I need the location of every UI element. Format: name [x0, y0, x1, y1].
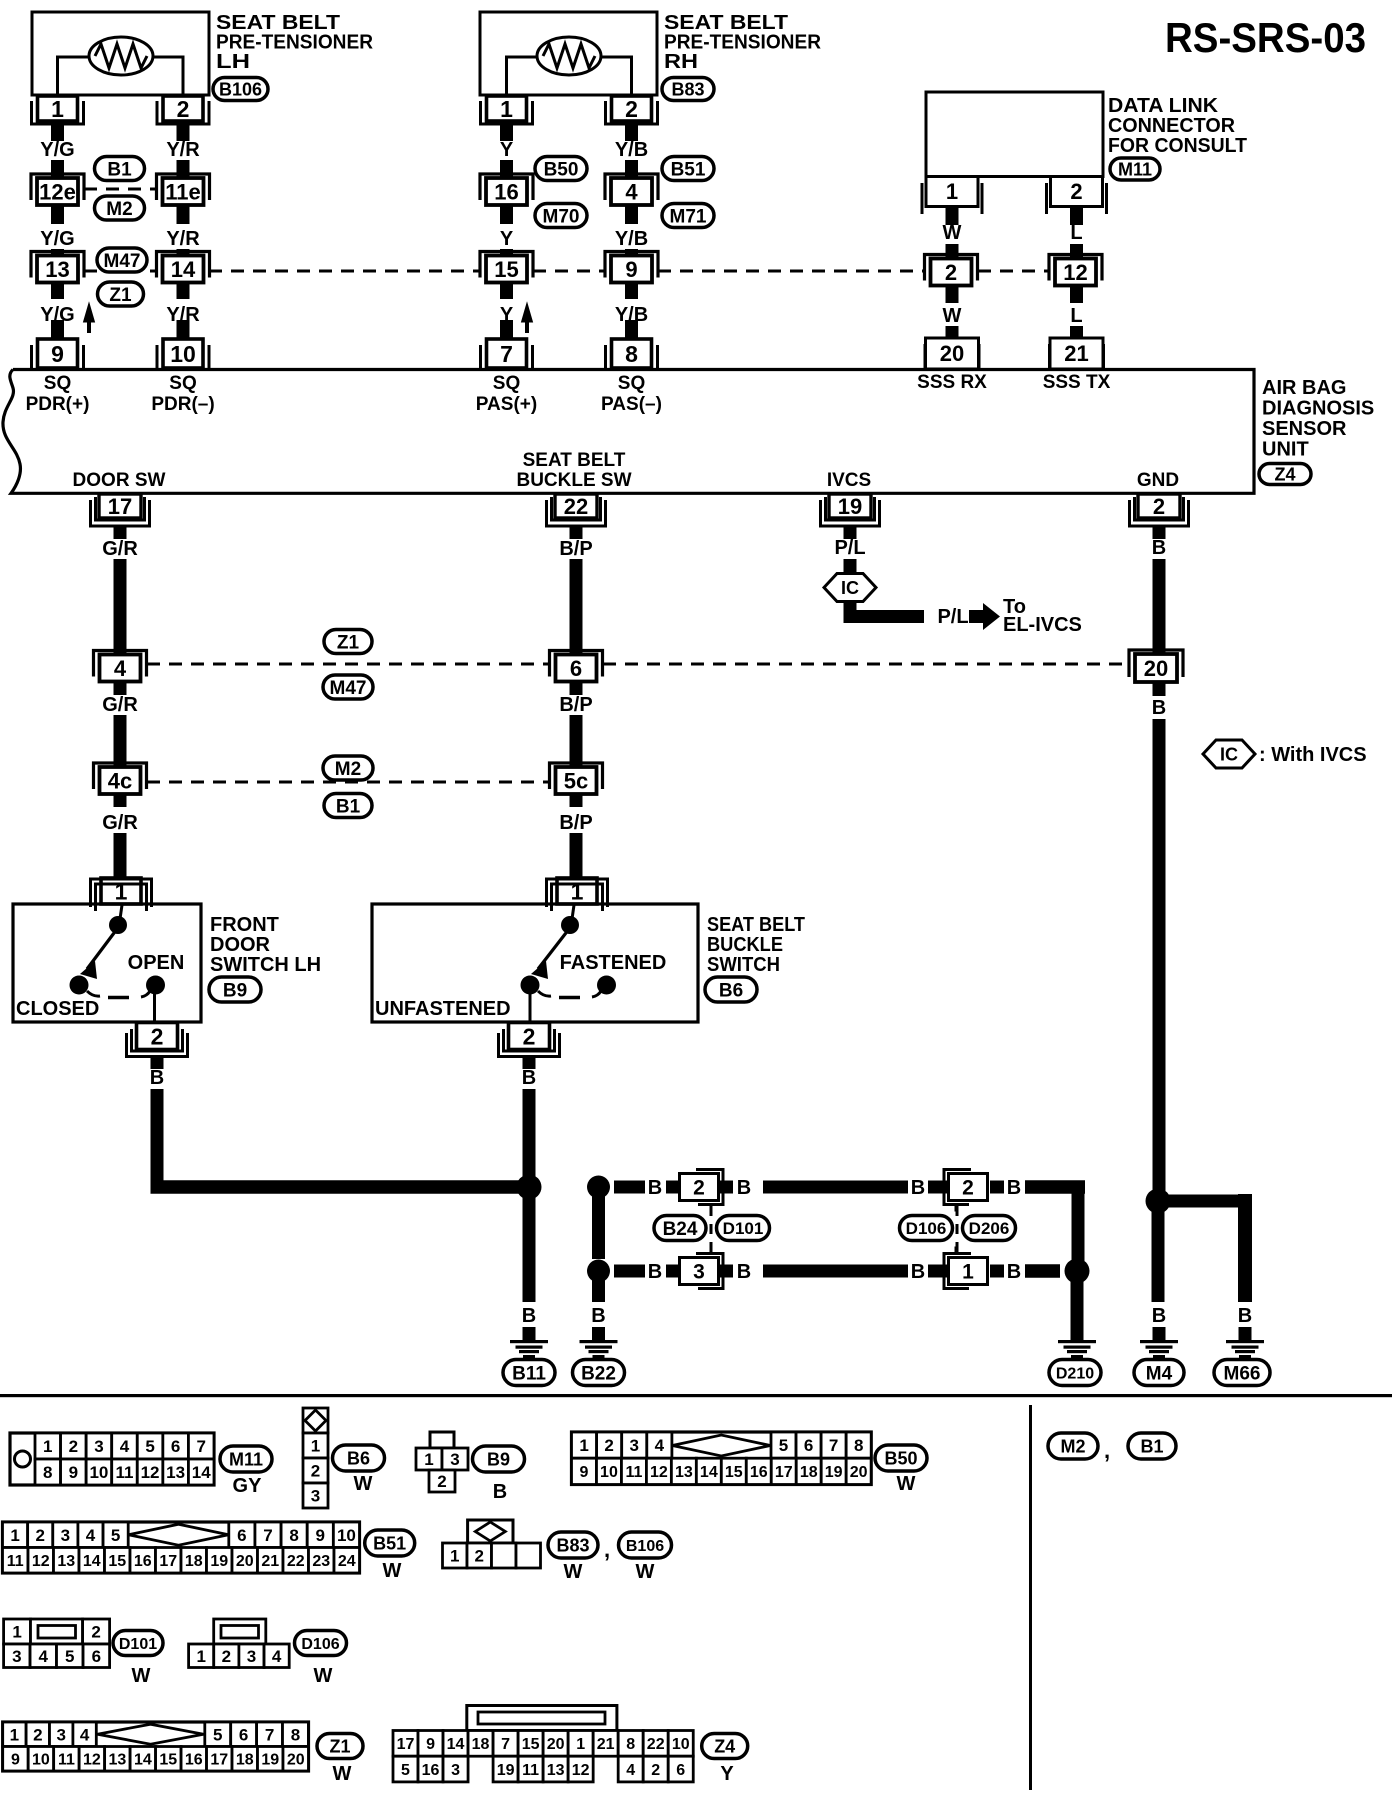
svg-text:B106: B106 — [219, 79, 262, 99]
svg-text:SQ: SQ — [169, 373, 196, 394]
svg-text:9: 9 — [11, 1752, 20, 1769]
svg-text:6: 6 — [804, 1436, 813, 1455]
svg-text:1: 1 — [576, 1736, 585, 1753]
svg-text:9: 9 — [69, 1463, 78, 1482]
svg-text:14: 14 — [134, 1752, 152, 1769]
svg-text:B83: B83 — [671, 79, 704, 99]
svg-text:M2: M2 — [1060, 1436, 1085, 1456]
svg-text:W: W — [333, 1763, 352, 1785]
svg-text:2: 2 — [222, 1647, 231, 1666]
svg-text:: With IVCS: : With IVCS — [1259, 744, 1367, 766]
svg-text:SQ: SQ — [44, 373, 71, 394]
svg-text:B: B — [150, 1067, 164, 1089]
svg-text:SQ: SQ — [618, 373, 645, 394]
svg-text:2: 2 — [311, 1462, 320, 1481]
svg-text:8: 8 — [291, 1725, 300, 1744]
svg-text:19: 19 — [825, 1464, 843, 1481]
svg-text:B51: B51 — [373, 1533, 406, 1553]
svg-text:1: 1 — [946, 179, 958, 204]
svg-text:W: W — [943, 222, 962, 244]
svg-text:1: 1 — [571, 878, 584, 904]
svg-text:18: 18 — [185, 1553, 203, 1570]
svg-text:B1: B1 — [107, 159, 132, 180]
svg-text:M4: M4 — [1146, 1363, 1173, 1384]
svg-text:DOOR SW: DOOR SW — [73, 470, 166, 491]
svg-text:B/P: B/P — [559, 694, 592, 716]
svg-text:5: 5 — [401, 1762, 410, 1779]
svg-text:14: 14 — [700, 1464, 718, 1481]
svg-text:Y/G: Y/G — [40, 139, 74, 161]
svg-text:1: 1 — [579, 1436, 588, 1455]
svg-text:4c: 4c — [108, 768, 132, 793]
svg-text:W: W — [314, 1665, 333, 1687]
svg-text:IVCS: IVCS — [827, 470, 871, 491]
svg-text:9: 9 — [426, 1736, 435, 1753]
svg-text:G/R: G/R — [102, 694, 138, 716]
svg-text:3: 3 — [56, 1725, 65, 1744]
svg-text:3: 3 — [630, 1436, 639, 1455]
svg-text:7: 7 — [501, 1736, 510, 1753]
svg-text:2: 2 — [151, 1023, 164, 1049]
svg-text:9: 9 — [316, 1526, 325, 1545]
svg-text:2: 2 — [91, 1623, 100, 1642]
svg-text:18: 18 — [472, 1736, 490, 1753]
svg-text:B: B — [737, 1177, 751, 1199]
svg-text:15: 15 — [725, 1464, 743, 1481]
svg-text:1: 1 — [115, 878, 128, 904]
svg-text:4: 4 — [626, 1762, 635, 1779]
svg-text:23: 23 — [312, 1553, 330, 1570]
svg-text:L: L — [1070, 222, 1082, 244]
svg-text:,: , — [1104, 1438, 1110, 1463]
svg-text:11e: 11e — [165, 179, 201, 204]
svg-text:B106: B106 — [626, 1538, 664, 1555]
svg-text:IC: IC — [1220, 745, 1238, 765]
svg-text:17: 17 — [397, 1736, 415, 1753]
svg-text:9: 9 — [580, 1464, 589, 1481]
svg-text:Y/R: Y/R — [166, 228, 200, 250]
svg-text:20: 20 — [236, 1553, 254, 1570]
svg-text:18: 18 — [800, 1464, 818, 1481]
svg-text:B11: B11 — [512, 1363, 546, 1384]
svg-text:2: 2 — [604, 1436, 613, 1455]
svg-text:SWITCH LH: SWITCH LH — [210, 954, 321, 976]
svg-text:11: 11 — [7, 1553, 24, 1570]
svg-text:8: 8 — [43, 1463, 52, 1482]
svg-text:11: 11 — [522, 1762, 539, 1779]
svg-text:10: 10 — [32, 1752, 50, 1769]
svg-text:1: 1 — [311, 1437, 320, 1456]
svg-text:W: W — [354, 1473, 373, 1495]
svg-text:14: 14 — [192, 1463, 211, 1482]
svg-text:SQ: SQ — [493, 373, 520, 394]
svg-text:3: 3 — [94, 1437, 103, 1456]
svg-text:LH: LH — [216, 51, 250, 73]
svg-text:W: W — [564, 1561, 583, 1583]
svg-text:7: 7 — [265, 1725, 274, 1744]
svg-text:15: 15 — [108, 1553, 126, 1570]
svg-text:D206: D206 — [969, 1219, 1010, 1238]
svg-text:16: 16 — [750, 1464, 768, 1481]
svg-text:P/L: P/L — [937, 606, 968, 628]
svg-text:2: 2 — [945, 260, 957, 285]
svg-text:M11: M11 — [1118, 159, 1152, 179]
svg-text:BUCKLE SW: BUCKLE SW — [516, 470, 631, 491]
svg-text:8: 8 — [625, 341, 638, 367]
svg-text:SEAT BELT: SEAT BELT — [523, 450, 626, 471]
svg-text:18: 18 — [236, 1752, 254, 1769]
svg-text:8: 8 — [626, 1736, 635, 1753]
svg-text:Y: Y — [720, 1763, 734, 1785]
svg-text:2: 2 — [69, 1437, 78, 1456]
svg-text:8: 8 — [289, 1526, 298, 1545]
svg-text:B: B — [1152, 697, 1166, 719]
svg-text:Y/R: Y/R — [166, 139, 200, 161]
svg-text:10: 10 — [170, 341, 196, 367]
svg-text:4: 4 — [272, 1647, 282, 1666]
svg-text:GND: GND — [1137, 470, 1179, 491]
svg-text:1: 1 — [10, 1725, 19, 1744]
svg-text:13: 13 — [57, 1553, 75, 1570]
svg-text:B/P: B/P — [559, 812, 592, 834]
svg-text:14: 14 — [447, 1736, 465, 1753]
svg-text:2: 2 — [625, 96, 638, 122]
svg-text:11: 11 — [58, 1752, 75, 1769]
svg-text:FASTENED: FASTENED — [560, 952, 667, 974]
svg-text:D101: D101 — [119, 1636, 157, 1653]
svg-text:6: 6 — [570, 656, 582, 681]
svg-text:2: 2 — [693, 1177, 705, 1200]
svg-text:6: 6 — [171, 1437, 180, 1456]
svg-text:M66: M66 — [1224, 1363, 1261, 1384]
svg-text:5c: 5c — [564, 768, 588, 793]
svg-text:2: 2 — [962, 1177, 974, 1200]
svg-text:CLOSED: CLOSED — [16, 998, 99, 1020]
svg-text:SEAT BELT: SEAT BELT — [707, 914, 805, 936]
svg-text:D106: D106 — [906, 1219, 947, 1238]
svg-text:B: B — [1152, 1305, 1166, 1327]
svg-text:M11: M11 — [229, 1449, 263, 1469]
svg-text:DIAGNOSIS: DIAGNOSIS — [1262, 398, 1374, 420]
svg-text:B50: B50 — [544, 159, 579, 180]
svg-text:5: 5 — [779, 1436, 788, 1455]
svg-text:1: 1 — [51, 96, 64, 122]
svg-text:D106: D106 — [301, 1636, 339, 1653]
svg-text:W: W — [943, 305, 962, 327]
svg-text:13: 13 — [547, 1762, 565, 1779]
svg-text:9: 9 — [51, 341, 64, 367]
svg-text:21: 21 — [597, 1736, 615, 1753]
svg-text:Z4: Z4 — [1274, 464, 1295, 484]
svg-text:B: B — [1238, 1305, 1252, 1327]
svg-text:3: 3 — [451, 1762, 460, 1779]
svg-text:11: 11 — [625, 1464, 642, 1481]
svg-text:FOR CONSULT: FOR CONSULT — [1108, 135, 1247, 157]
svg-text:14: 14 — [83, 1553, 101, 1570]
svg-text:EL-IVCS: EL-IVCS — [1003, 614, 1082, 636]
svg-text:19: 19 — [210, 1553, 228, 1570]
svg-text:19: 19 — [261, 1752, 279, 1769]
svg-text:12: 12 — [1063, 260, 1087, 285]
svg-text:4: 4 — [120, 1437, 130, 1456]
svg-text:B83: B83 — [556, 1535, 589, 1555]
svg-text:4: 4 — [625, 179, 638, 204]
svg-text:B24: B24 — [663, 1219, 698, 1240]
svg-text:12: 12 — [83, 1752, 101, 1769]
svg-text:6: 6 — [676, 1762, 685, 1779]
svg-text:7: 7 — [263, 1526, 272, 1545]
svg-text:4: 4 — [39, 1647, 49, 1666]
svg-text:2: 2 — [35, 1526, 44, 1545]
svg-text:17: 17 — [108, 494, 132, 519]
svg-text:22: 22 — [647, 1736, 665, 1753]
svg-text:SENSOR: SENSOR — [1262, 418, 1347, 440]
svg-text:5: 5 — [145, 1437, 154, 1456]
svg-text:B: B — [911, 1177, 925, 1199]
svg-text:5: 5 — [65, 1647, 74, 1666]
svg-text:UNFASTENED: UNFASTENED — [375, 998, 511, 1020]
svg-text:BUCKLE: BUCKLE — [707, 934, 783, 956]
svg-text:Y: Y — [500, 228, 514, 250]
svg-text:13: 13 — [166, 1463, 185, 1482]
svg-text:M2: M2 — [106, 199, 132, 220]
svg-text:B: B — [1007, 1261, 1021, 1283]
svg-text:2: 2 — [523, 1023, 536, 1049]
svg-text:3: 3 — [311, 1487, 320, 1506]
svg-text:20: 20 — [547, 1736, 565, 1753]
svg-text:8: 8 — [854, 1436, 863, 1455]
svg-text:15: 15 — [494, 257, 518, 282]
svg-text:12: 12 — [141, 1463, 160, 1482]
svg-text:2: 2 — [651, 1762, 660, 1779]
svg-text:M47: M47 — [104, 251, 141, 272]
svg-text:4: 4 — [80, 1725, 90, 1744]
svg-text:10: 10 — [600, 1464, 618, 1481]
svg-text:1: 1 — [450, 1547, 459, 1566]
svg-text:Y/B: Y/B — [615, 228, 648, 250]
svg-text:3: 3 — [247, 1647, 256, 1666]
svg-text:3: 3 — [12, 1647, 21, 1666]
svg-text:13: 13 — [45, 257, 69, 282]
svg-text:2: 2 — [33, 1725, 42, 1744]
svg-text:B: B — [591, 1305, 605, 1327]
svg-text:4: 4 — [86, 1526, 96, 1545]
svg-text:19: 19 — [838, 494, 862, 519]
svg-text:17: 17 — [159, 1553, 177, 1570]
svg-text:15: 15 — [522, 1736, 540, 1753]
svg-text:21: 21 — [1064, 341, 1088, 366]
svg-text:16: 16 — [185, 1752, 203, 1769]
svg-text:9: 9 — [625, 257, 637, 282]
svg-text:24: 24 — [338, 1553, 356, 1570]
svg-text:17: 17 — [775, 1464, 793, 1481]
svg-text:G/R: G/R — [102, 538, 138, 560]
svg-text:1: 1 — [500, 96, 513, 122]
svg-text:B9: B9 — [223, 980, 247, 1001]
svg-text:Y: Y — [500, 139, 514, 161]
svg-text:22: 22 — [287, 1553, 305, 1570]
svg-text:15: 15 — [159, 1752, 177, 1769]
svg-text:10: 10 — [337, 1526, 356, 1545]
svg-text:W: W — [897, 1473, 916, 1495]
svg-text:G/R: G/R — [102, 812, 138, 834]
svg-text:11: 11 — [116, 1463, 134, 1482]
svg-text:B: B — [648, 1261, 662, 1283]
svg-text:B: B — [1152, 537, 1166, 559]
svg-text:7: 7 — [829, 1436, 838, 1455]
svg-text:12: 12 — [572, 1762, 590, 1779]
svg-text:W: W — [636, 1561, 655, 1583]
svg-text:B50: B50 — [884, 1448, 917, 1468]
svg-text:UNIT: UNIT — [1262, 439, 1309, 461]
svg-text:2: 2 — [1153, 494, 1165, 519]
svg-text:Y/G: Y/G — [40, 228, 74, 250]
svg-text:M47: M47 — [330, 678, 367, 699]
svg-text:17: 17 — [210, 1752, 228, 1769]
svg-text:B: B — [737, 1261, 751, 1283]
svg-text:L: L — [1070, 305, 1082, 327]
svg-text:20: 20 — [940, 341, 964, 366]
svg-text:PAS(+): PAS(+) — [476, 394, 537, 415]
svg-text:PDR(+): PDR(+) — [26, 394, 90, 415]
svg-text:2: 2 — [177, 96, 190, 122]
svg-text:D101: D101 — [723, 1219, 764, 1238]
svg-text:3: 3 — [61, 1526, 70, 1545]
svg-text:1: 1 — [424, 1450, 433, 1469]
svg-text:B: B — [911, 1261, 925, 1283]
svg-text:CONNECTOR: CONNECTOR — [1108, 115, 1236, 137]
svg-text:5: 5 — [213, 1725, 222, 1744]
svg-text:M71: M71 — [670, 206, 707, 227]
svg-text:P/L: P/L — [834, 537, 865, 559]
svg-text:6: 6 — [92, 1647, 101, 1666]
svg-text:B: B — [1007, 1177, 1021, 1199]
svg-text:12: 12 — [650, 1464, 668, 1481]
svg-text:21: 21 — [261, 1553, 279, 1570]
svg-text:IC: IC — [841, 578, 859, 598]
svg-text:RS-SRS-03: RS-SRS-03 — [1165, 14, 1366, 61]
svg-text:4: 4 — [655, 1436, 665, 1455]
svg-text:6: 6 — [237, 1526, 246, 1545]
svg-text:B6: B6 — [347, 1448, 370, 1468]
svg-text:22: 22 — [564, 494, 588, 519]
svg-text:19: 19 — [497, 1762, 515, 1779]
svg-text:W: W — [383, 1560, 402, 1582]
svg-text:Z1: Z1 — [109, 285, 132, 306]
svg-text:SSS TX: SSS TX — [1043, 372, 1111, 393]
svg-text:Z4: Z4 — [714, 1736, 735, 1756]
svg-text:20: 20 — [850, 1464, 868, 1481]
svg-text:M70: M70 — [543, 206, 580, 227]
svg-text:FRONT: FRONT — [210, 914, 279, 936]
svg-text:SWITCH: SWITCH — [707, 954, 780, 976]
svg-text:2: 2 — [475, 1547, 484, 1566]
svg-text:B: B — [493, 1481, 507, 1503]
svg-text:16: 16 — [494, 179, 518, 204]
svg-text:6: 6 — [239, 1725, 248, 1744]
svg-text:7: 7 — [196, 1437, 205, 1456]
svg-text:B51: B51 — [671, 159, 706, 180]
svg-text:4: 4 — [114, 656, 127, 681]
svg-text:20: 20 — [1144, 656, 1168, 681]
svg-text:RH: RH — [664, 51, 698, 73]
svg-text:1: 1 — [196, 1647, 205, 1666]
svg-text:7: 7 — [500, 341, 513, 367]
svg-text:W: W — [132, 1665, 151, 1687]
svg-text:DATA LINK: DATA LINK — [1108, 95, 1219, 117]
svg-text:Z1: Z1 — [329, 1736, 350, 1756]
svg-text:1: 1 — [12, 1623, 21, 1642]
svg-text:16: 16 — [134, 1553, 152, 1570]
svg-text:PAS(–): PAS(–) — [601, 394, 662, 415]
svg-text:1: 1 — [10, 1526, 19, 1545]
svg-text:SSS RX: SSS RX — [917, 372, 987, 393]
svg-text:10: 10 — [672, 1736, 690, 1753]
svg-text:13: 13 — [108, 1752, 126, 1769]
svg-text:B: B — [648, 1177, 662, 1199]
svg-text:GY: GY — [233, 1475, 263, 1497]
svg-text:2: 2 — [1070, 179, 1082, 204]
svg-text:1: 1 — [43, 1437, 52, 1456]
svg-text:DOOR: DOOR — [210, 934, 271, 956]
svg-text:20: 20 — [287, 1752, 305, 1769]
svg-text:,: , — [604, 1537, 610, 1562]
svg-text:OPEN: OPEN — [128, 952, 185, 974]
svg-text:Y/B: Y/B — [615, 139, 648, 161]
svg-text:B/P: B/P — [559, 538, 592, 560]
svg-text:5: 5 — [111, 1526, 120, 1545]
svg-text:14: 14 — [171, 257, 196, 282]
svg-text:3: 3 — [450, 1450, 459, 1469]
svg-text:B: B — [522, 1305, 536, 1327]
svg-text:1: 1 — [962, 1261, 974, 1284]
svg-text:B1: B1 — [1140, 1436, 1163, 1456]
svg-text:B22: B22 — [581, 1363, 616, 1384]
svg-text:PDR(–): PDR(–) — [151, 394, 214, 415]
svg-text:B6: B6 — [719, 980, 743, 1001]
svg-text:3: 3 — [693, 1261, 705, 1284]
svg-text:B9: B9 — [487, 1449, 510, 1469]
svg-text:12: 12 — [32, 1553, 50, 1570]
svg-text:D210: D210 — [1056, 1365, 1094, 1382]
svg-text:AIR BAG: AIR BAG — [1262, 377, 1346, 399]
svg-text:Z1: Z1 — [337, 632, 360, 653]
svg-text:B: B — [522, 1067, 536, 1089]
svg-text:10: 10 — [89, 1463, 108, 1482]
svg-text:16: 16 — [422, 1762, 440, 1779]
svg-text:B1: B1 — [336, 796, 361, 817]
svg-text:M2: M2 — [335, 759, 361, 780]
svg-text:2: 2 — [437, 1472, 446, 1491]
svg-text:12e: 12e — [39, 179, 76, 204]
svg-text:13: 13 — [675, 1464, 693, 1481]
